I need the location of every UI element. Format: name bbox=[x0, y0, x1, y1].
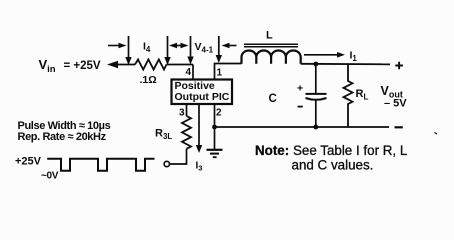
wire top rail bbox=[301, 63, 390, 66]
svg-text:+25V: +25V bbox=[15, 156, 42, 168]
speck bbox=[435, 133, 438, 135]
resistor RL bbox=[344, 64, 353, 127]
wire input lead with source arrow bbox=[113, 64, 135, 66]
double arrow between markers bbox=[173, 45, 184, 47]
svg-text:Note: See Table I for R, L: Note: See Table I for R, L bbox=[255, 143, 407, 158]
svg-text:C: C bbox=[269, 93, 277, 105]
svg-text:– 5V: – 5V bbox=[384, 97, 407, 109]
waveform pulse train bbox=[47, 159, 154, 171]
svg-text:L: L bbox=[266, 30, 273, 42]
wire pin1 riser to inductor bbox=[215, 64, 242, 80]
svg-text:2: 2 bbox=[216, 108, 222, 119]
wire bottom rail bbox=[215, 126, 390, 128]
terminal minus bbox=[395, 126, 403, 128]
node junction cap bottom bbox=[313, 125, 318, 130]
terminal plus bbox=[395, 62, 403, 69]
voltage marker V4 bbox=[190, 36, 192, 58]
inductor core lines bbox=[244, 44, 298, 47]
inductor L bbox=[241, 51, 300, 64]
op block U1 Positive Output PIC bbox=[172, 80, 233, 105]
svg-text:1: 1 bbox=[217, 68, 223, 79]
svg-text:~0V: ~0V bbox=[41, 171, 59, 182]
svg-text:+: + bbox=[297, 83, 303, 95]
current arrow I3 bbox=[198, 105, 200, 147]
voltage marker V1 bbox=[218, 36, 220, 57]
ground bbox=[214, 127, 216, 150]
terminal circle bbox=[164, 161, 169, 166]
svg-text:3: 3 bbox=[179, 108, 185, 119]
wire pin2 lead bbox=[214, 104, 216, 127]
svg-text:and C values.: and C values. bbox=[292, 158, 374, 173]
node junction top bbox=[313, 62, 318, 67]
resistor .1 ohm bbox=[135, 60, 166, 70]
wire pin3 lead bbox=[186, 104, 188, 116]
wire resistor to pin4 corner bbox=[167, 64, 194, 66]
wire pin4 riser bbox=[192, 65, 194, 80]
node junction pin2 bbox=[212, 125, 217, 130]
svg-text:4: 4 bbox=[186, 67, 192, 78]
svg-text:Rep. Rate ≈ 20kHz: Rep. Rate ≈ 20kHz bbox=[18, 131, 107, 143]
current arrow I1 bbox=[304, 54, 339, 56]
current probe arrow I4 left marker bbox=[128, 36, 130, 58]
current probe arrow I4 right marker bbox=[167, 36, 169, 58]
svg-text:.1Ω: .1Ω bbox=[140, 74, 157, 86]
svg-text:Output PIC: Output PIC bbox=[175, 91, 230, 103]
capacitor C bbox=[315, 64, 317, 93]
resistor R3L bbox=[182, 116, 191, 149]
wire R3L to terminal bbox=[170, 149, 187, 164]
